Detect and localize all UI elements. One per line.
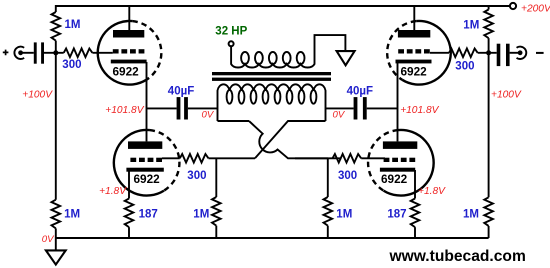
triode V2a 6922 (bottom left) envelope — [114, 130, 164, 196]
input jack left — [14, 47, 24, 59]
transformer core — [212, 72, 331, 75]
wire grid lead top-left tube — [92, 52, 112, 54]
capacitor input left — [34, 42, 37, 63]
capacitor output right — [497, 44, 501, 66]
svg-text:+101.8V: +101.8V — [400, 105, 439, 116]
svg-text:300: 300 — [338, 170, 357, 182]
svg-text:6922: 6922 — [113, 64, 140, 78]
triode V1a 6922 (top left) envelope — [98, 21, 147, 85]
resistor 300 (top right grid) — [449, 49, 478, 58]
svg-text:300: 300 — [455, 61, 474, 73]
svg-text:+1.8V: +1.8V — [99, 186, 127, 197]
wire diagonal with hop (upper-left to lower-right) — [249, 121, 328, 158]
svg-text:0V: 0V — [333, 110, 346, 121]
svg-text:300: 300 — [62, 59, 81, 71]
resistor 300 (top left grid) — [64, 49, 93, 58]
svg-text:187: 187 — [139, 208, 158, 220]
wire ground stub — [55, 238, 57, 250]
svg-text:0V: 0V — [42, 234, 55, 245]
svg-text:6922: 6922 — [401, 64, 428, 78]
triode V2a cathode — [126, 168, 163, 172]
resistor 1M (bottom far left) — [52, 200, 61, 229]
triode V1b cathode — [396, 60, 432, 64]
svg-text:+100V: +100V — [22, 90, 53, 101]
svg-text:1M: 1M — [463, 208, 479, 220]
resistor 187 (right) — [411, 199, 420, 228]
svg-text:40µF: 40µF — [168, 85, 194, 97]
triode V1a cathode — [111, 60, 147, 64]
resistor 300 (bottom left grid) — [180, 154, 209, 163]
triode V2b cathode — [380, 168, 415, 172]
triode V2b plate — [383, 141, 417, 149]
ground (secondary) — [337, 51, 355, 65]
node junction left input — [53, 50, 58, 55]
wire primary right to 40uF right (node 0V) — [326, 107, 354, 109]
wire top rail B+ — [56, 5, 510, 7]
wire cap to output jack — [510, 52, 519, 54]
triode V2b grid dashes — [384, 158, 390, 162]
wire cross node right horizontal — [295, 157, 342, 159]
wire V2a cathode down — [128, 170, 130, 199]
svg-text:+100V: +100V — [491, 90, 522, 101]
wire 40uF to primary left (node 0V) — [188, 107, 218, 109]
resistor 1M (top right) — [484, 10, 493, 39]
resistor 187 (left) — [125, 199, 134, 228]
resistor 1M (bottom far right) — [484, 197, 493, 226]
svg-text:www.tubecad.com: www.tubecad.com — [389, 248, 526, 265]
node junction right output — [486, 50, 491, 55]
svg-text:6922: 6922 — [381, 172, 408, 186]
wire cathode V1a down to plate V2a (left mid vertical) — [146, 62, 148, 141]
wire V2b cathode down — [414, 170, 416, 199]
wire 187 to rail — [128, 227, 130, 238]
ground (main) — [46, 250, 66, 264]
wire grid lead V1b — [430, 52, 449, 54]
inductor primary winding — [218, 84, 326, 121]
svg-text:1M: 1M — [336, 208, 352, 220]
svg-text:+101.8V: +101.8V — [105, 105, 144, 116]
terminal +200V — [510, 3, 516, 9]
wire grid lead V2b — [361, 157, 385, 159]
wire grid lead V2a — [162, 157, 180, 159]
triode V1b 6922 (top right) envelope — [402, 21, 451, 85]
svg-text:0V: 0V — [202, 110, 215, 121]
wire cap to node — [44, 52, 64, 54]
svg-text:+1.8V: +1.8V — [418, 186, 446, 197]
svg-text:+200V: +200V — [521, 3, 550, 14]
output jack right — [517, 47, 527, 59]
resistor 1M (bottom mid left) — [215, 158, 217, 197]
wire right column vertical — [488, 5, 490, 238]
triode V1b plate — [398, 30, 430, 38]
resistor 300 (bottom right grid) — [333, 154, 362, 163]
wire plate to rail — [128, 6, 130, 30]
wire to cross node left — [209, 157, 256, 159]
triode V1a grid dashes — [113, 49, 119, 53]
triode V2a plate — [128, 141, 162, 149]
svg-text:40µF: 40µF — [347, 85, 373, 97]
triode V1b grid dashes — [398, 49, 404, 53]
triode V1a plate — [113, 30, 144, 38]
triode V2a grid dashes — [130, 158, 136, 162]
wire mid to 40uF left — [147, 107, 177, 109]
wire input to cap — [22, 52, 34, 54]
wire bottom rail 0V — [56, 237, 489, 239]
svg-text:1M: 1M — [65, 19, 81, 31]
wire 40uF to right mid vertical — [367, 107, 398, 109]
wire 1M to rail — [215, 226, 217, 238]
input plus label — [3, 50, 9, 56]
svg-text:1M: 1M — [64, 208, 80, 220]
svg-text:32 HP: 32 HP — [215, 26, 247, 38]
wire diagonal straight (lower-left to upper-right) — [255, 121, 326, 158]
output minus label — [536, 52, 544, 54]
wire cathode V1b down to plate V2b (right mid vertical) — [397, 62, 399, 141]
wire left column vertical — [55, 5, 57, 238]
terminal secondary 32 ohm tap — [229, 41, 234, 46]
inductor secondary winding — [231, 35, 345, 67]
svg-text:6922: 6922 — [134, 172, 161, 186]
capacitor 40uF right — [354, 97, 358, 119]
svg-text:1M: 1M — [463, 20, 479, 32]
wire 1M to rail — [327, 226, 329, 238]
wire to output junction — [478, 52, 497, 54]
capacitor 40uF left — [177, 97, 181, 119]
wire plate to rail — [413, 6, 415, 30]
svg-text:300: 300 — [187, 170, 206, 182]
wire 187 to rail — [414, 227, 416, 238]
wire cross-couple upper left — [218, 120, 250, 122]
svg-text:187: 187 — [387, 208, 406, 220]
resistor 1M (bottom mid right) — [327, 158, 329, 197]
resistor 1M (top left) — [52, 12, 61, 41]
triode V2b 6922 (bottom right) envelope — [384, 130, 434, 196]
svg-text:1M: 1M — [193, 208, 209, 220]
